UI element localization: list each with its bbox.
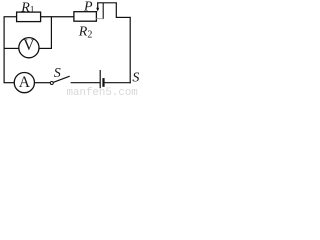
slider arrow P	[97, 3, 99, 9]
wire slider top horizontal	[97, 2, 117, 4]
wire voltmeter left	[4, 47, 19, 49]
wire R2 right tie vertical	[102, 3, 104, 19]
resistor R2	[74, 12, 97, 22]
svg-text:S: S	[54, 66, 61, 81]
wire switch to battery	[71, 82, 101, 84]
svg-text:A: A	[19, 74, 31, 91]
wire right rail	[129, 17, 131, 83]
ammeter A	[14, 73, 34, 93]
svg-text:P: P	[83, 0, 93, 15]
wire left rail	[3, 17, 5, 83]
svg-text:V: V	[23, 37, 35, 54]
wire voltmeter branch vertical	[50, 16, 52, 49]
wire ammeter left	[4, 82, 15, 84]
voltmeter V	[19, 38, 39, 58]
switch S pivot	[50, 82, 53, 85]
resistor R1	[17, 12, 41, 22]
svg-text:S: S	[132, 71, 139, 86]
wire R1 right to R2 left	[41, 16, 75, 18]
svg-text:manfen5.com: manfen5.com	[67, 87, 138, 97]
switch S blade	[53, 76, 69, 82]
battery short plate	[102, 78, 104, 87]
battery long plate	[99, 70, 101, 88]
wire ammeter right to switch	[35, 82, 50, 84]
wire step horizontal	[116, 16, 131, 18]
wire voltmeter right	[39, 47, 52, 49]
wire bottom right from battery	[104, 82, 131, 84]
wire R2 right terminal	[96, 18, 103, 20]
wire step vertical	[115, 3, 117, 18]
wire top-left to R1	[4, 16, 18, 18]
